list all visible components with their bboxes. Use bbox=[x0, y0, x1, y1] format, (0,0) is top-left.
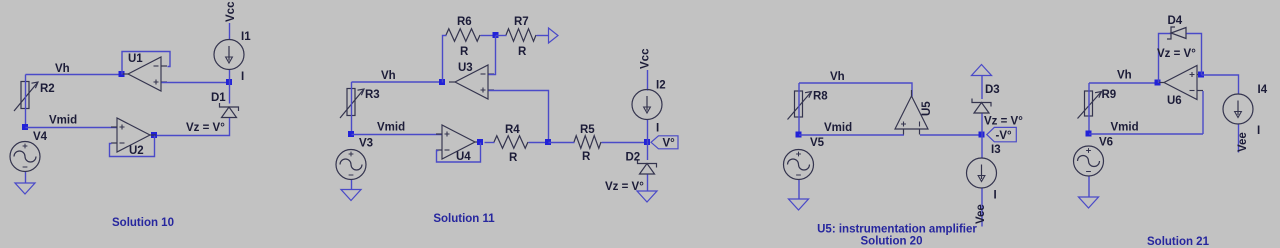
wire node I to D2 bbox=[647, 143, 649, 161]
svg-text:U5: U5 bbox=[921, 101, 933, 116]
node U6 output on Vh bbox=[1155, 80, 1161, 86]
resistor R6 bbox=[446, 29, 480, 42]
wire U4 output to R4 bbox=[485, 142, 495, 144]
svg-text:D2: D2 bbox=[626, 152, 641, 164]
resistor R4 bbox=[494, 136, 528, 149]
voltage source V3 bbox=[336, 150, 366, 180]
node Vmid junction (Solution 11) bbox=[348, 131, 354, 137]
node Vmid junction (Solution 21) bbox=[1086, 131, 1092, 137]
svg-text:-V°: -V° bbox=[996, 130, 1013, 142]
wire Vmid (Solution 11) bbox=[352, 134, 443, 136]
ground under D2 bbox=[637, 191, 657, 202]
svg-text:Vh: Vh bbox=[55, 63, 70, 75]
svg-text:Vmid: Vmid bbox=[377, 122, 405, 134]
svg-text:R6: R6 bbox=[457, 16, 472, 28]
wire U3 + input down to summing node bbox=[489, 91, 549, 143]
output terminal arrow bbox=[549, 28, 559, 43]
svg-text:V5: V5 bbox=[810, 137, 825, 149]
node U1 output on Vh bbox=[119, 71, 125, 77]
zener diode D2 bbox=[638, 160, 657, 175]
net flag V° bbox=[651, 136, 678, 150]
svg-text:Vcc: Vcc bbox=[640, 48, 652, 69]
svg-text:Vh: Vh bbox=[381, 70, 396, 82]
svg-text:Vmid: Vmid bbox=[824, 122, 852, 134]
svg-text:D4: D4 bbox=[1168, 15, 1183, 27]
svg-text:Solution 20: Solution 20 bbox=[861, 236, 923, 248]
svg-text:Vh: Vh bbox=[830, 71, 845, 83]
svg-text:Vmid: Vmid bbox=[49, 115, 77, 127]
svg-text:Vz = V°: Vz = V° bbox=[186, 122, 225, 134]
rheostat R8 bbox=[788, 91, 812, 120]
ground (Solution 21) bbox=[1079, 197, 1099, 208]
wire Vmid bbox=[26, 127, 118, 129]
wire R5 to node I bbox=[602, 142, 648, 144]
svg-text:R3: R3 bbox=[365, 89, 380, 101]
wire D2 anode to ground bbox=[647, 175, 649, 192]
svg-text:Vmid: Vmid bbox=[1111, 122, 1139, 134]
zener diode D1 bbox=[220, 103, 239, 118]
voltage source V4 bbox=[10, 142, 40, 172]
svg-text:R: R bbox=[582, 151, 591, 163]
ground (Solution 20) bbox=[789, 199, 809, 210]
svg-text:D3: D3 bbox=[985, 84, 1000, 96]
node I (Solution 11) bbox=[644, 139, 650, 145]
svg-text:Solution 10: Solution 10 bbox=[112, 217, 174, 229]
svg-text:Solution 21: Solution 21 bbox=[1147, 236, 1210, 248]
rheostat R3 bbox=[340, 89, 364, 119]
svg-text:Vee: Vee bbox=[975, 204, 987, 224]
zener diode D3 bbox=[972, 99, 991, 114]
wire R6 to junction bbox=[481, 35, 496, 37]
wire Vh (Solution 10) bbox=[26, 74, 122, 76]
svg-text:U6: U6 bbox=[1167, 95, 1182, 107]
wire U5 - input to node bbox=[920, 134, 982, 136]
wire R2 column bbox=[25, 75, 27, 128]
voltage source V5 bbox=[784, 150, 814, 180]
resistor R5 bbox=[574, 136, 601, 149]
wire I3 to Vee rail bbox=[981, 189, 983, 227]
node I bbox=[226, 79, 232, 85]
rheostat R9 bbox=[1078, 91, 1102, 119]
svg-text:I2: I2 bbox=[656, 80, 666, 92]
op-amp U6 bbox=[1158, 66, 1203, 100]
wire V3 to ground bbox=[351, 180, 353, 190]
wire U1 + input to node I bbox=[162, 82, 230, 84]
op-amp U5 (instrumentation amplifier) bbox=[895, 90, 928, 135]
node U2 output bbox=[151, 132, 157, 138]
wire summing node to R5 bbox=[549, 142, 575, 144]
svg-text:R5: R5 bbox=[580, 124, 595, 136]
wire U1 feedback loop bbox=[122, 52, 170, 75]
svg-text:D1: D1 bbox=[211, 92, 226, 104]
wire U4 feedback loop bbox=[437, 143, 481, 163]
wire R8 column bbox=[798, 83, 800, 135]
wire I4 to Vee rail bbox=[1238, 125, 1240, 153]
svg-text:Solution 11: Solution 11 bbox=[433, 213, 495, 225]
op-amp U2 bbox=[111, 118, 156, 152]
wire Vcc to I1 bbox=[229, 23, 231, 40]
svg-text:R: R bbox=[460, 46, 469, 58]
wire I1 to node I bbox=[229, 70, 231, 83]
svg-text:R9: R9 bbox=[1102, 89, 1117, 101]
svg-text:Vz = V°: Vz = V° bbox=[1157, 48, 1196, 60]
wire V6 to ground bbox=[1088, 177, 1090, 198]
resistor R7 bbox=[506, 29, 536, 42]
svg-text:U4: U4 bbox=[456, 151, 471, 163]
current source I3 bbox=[967, 158, 997, 188]
svg-text:U5: instrumentation amplifier: U5: instrumentation amplifier bbox=[817, 224, 977, 236]
wire D4 cathode side down to + node bbox=[1187, 34, 1202, 76]
svg-text:I1: I1 bbox=[241, 31, 251, 43]
current source I4 bbox=[1223, 94, 1253, 124]
svg-text:V°: V° bbox=[663, 138, 676, 150]
wire D3 anode to node bbox=[981, 114, 983, 136]
svg-text:V6: V6 bbox=[1099, 137, 1113, 149]
ground bbox=[15, 183, 35, 194]
wire D1 anode to U2 output (Vz) bbox=[155, 118, 230, 136]
node U4 output bbox=[477, 139, 483, 145]
wire V5 to ground bbox=[798, 180, 800, 200]
voltage source V6 bbox=[1074, 146, 1104, 176]
wire junction to R7 bbox=[496, 35, 507, 37]
wire Vh (Solution 11) bbox=[352, 81, 442, 83]
wire Vcc to I2 bbox=[647, 70, 649, 91]
wire Vmid to U5 + input bbox=[799, 134, 904, 136]
svg-text:R2: R2 bbox=[40, 83, 55, 95]
svg-text:I: I bbox=[656, 123, 659, 135]
svg-text:Vz = V°: Vz = V° bbox=[984, 116, 1023, 128]
svg-text:R4: R4 bbox=[505, 124, 520, 136]
svg-text:U3: U3 bbox=[458, 62, 473, 74]
svg-text:V3: V3 bbox=[359, 138, 373, 150]
wire U2 feedback loop bbox=[110, 136, 155, 157]
wire V4 to ground bbox=[25, 172, 27, 184]
current source I1 bbox=[214, 40, 244, 70]
node Vmid junction (Solution 20) bbox=[796, 132, 802, 138]
svg-text:I: I bbox=[241, 71, 244, 83]
wire node I to D1 bbox=[229, 83, 231, 104]
svg-text:Vh: Vh bbox=[1117, 70, 1132, 82]
wire junction down to U3 - input bbox=[489, 36, 496, 75]
op-amp U3 bbox=[449, 65, 494, 99]
wire R7 to terminal bbox=[537, 35, 549, 37]
node summing junction bbox=[545, 139, 551, 145]
current source I2 bbox=[632, 90, 662, 120]
op-amp U1 bbox=[122, 57, 167, 91]
zener diode D4 bbox=[1167, 27, 1186, 39]
wire U3 output up to R6 bbox=[443, 36, 447, 83]
node R6-R7 junction bbox=[493, 32, 499, 38]
svg-text:R: R bbox=[509, 152, 518, 164]
svg-text:U2: U2 bbox=[129, 145, 144, 157]
svg-text:R: R bbox=[518, 46, 527, 58]
svg-text:Vee: Vee bbox=[1237, 132, 1249, 152]
wire R3 column bbox=[351, 82, 353, 135]
wire R9 column bbox=[1088, 83, 1090, 134]
svg-text:I: I bbox=[1257, 125, 1260, 137]
wire node to I3 bbox=[981, 135, 983, 159]
svg-text:Vcc: Vcc bbox=[225, 1, 237, 22]
node U3 output on Vh bbox=[439, 79, 445, 85]
ground (Solution 11) bbox=[341, 190, 361, 201]
op-amp U4 bbox=[436, 125, 481, 159]
wire I2 to node I bbox=[647, 120, 649, 143]
svg-text:I: I bbox=[994, 190, 997, 202]
wire Vmid (Solution 21) bbox=[1089, 133, 1203, 135]
rheostat R2 bbox=[14, 82, 38, 112]
wire + node to I4 bbox=[1202, 75, 1239, 95]
wire U6 - input down to Vmid bbox=[1202, 91, 1204, 134]
svg-text:V4: V4 bbox=[33, 131, 48, 143]
node Vmid junction bbox=[22, 124, 28, 130]
node -V° (Solution 20) bbox=[979, 132, 985, 138]
wire R4 to summing node bbox=[529, 142, 549, 144]
wire Vh (Solution 21) bbox=[1089, 82, 1158, 84]
svg-text:I4: I4 bbox=[1258, 84, 1268, 96]
wire Vh to U5 output (Solution 20) bbox=[799, 83, 912, 97]
net flag -V° bbox=[987, 127, 1017, 141]
wire ground to D3 bbox=[981, 76, 983, 99]
svg-text:U1: U1 bbox=[128, 53, 143, 65]
wire U6 output up to D4 bbox=[1159, 34, 1172, 84]
inverted ground above D3 bbox=[972, 65, 992, 76]
node U6 + input bbox=[1198, 72, 1204, 78]
svg-text:I3: I3 bbox=[991, 144, 1001, 156]
svg-text:R7: R7 bbox=[514, 16, 529, 28]
svg-text:R8: R8 bbox=[813, 91, 828, 103]
